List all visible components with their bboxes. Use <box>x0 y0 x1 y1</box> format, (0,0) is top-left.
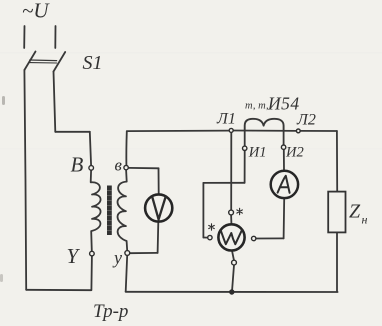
svg-text:И2: И2 <box>285 145 304 161</box>
svg-text:B: B <box>71 153 84 177</box>
svg-text:Тр-р: Тр-р <box>93 301 128 322</box>
svg-text:в: в <box>115 156 123 175</box>
svg-text:у: у <box>112 248 122 268</box>
svg-text:Z: Z <box>349 201 361 223</box>
svg-text:И54: И54 <box>267 94 300 114</box>
svg-text:~U: ~U <box>22 0 50 23</box>
svg-text:Л2: Л2 <box>296 112 316 129</box>
svg-text:т, т,: т, т, <box>245 101 269 112</box>
svg-text:S1: S1 <box>83 52 103 74</box>
svg-text:н: н <box>362 213 368 227</box>
svg-text:Л1: Л1 <box>216 111 236 128</box>
svg-text:И1: И1 <box>248 145 267 161</box>
